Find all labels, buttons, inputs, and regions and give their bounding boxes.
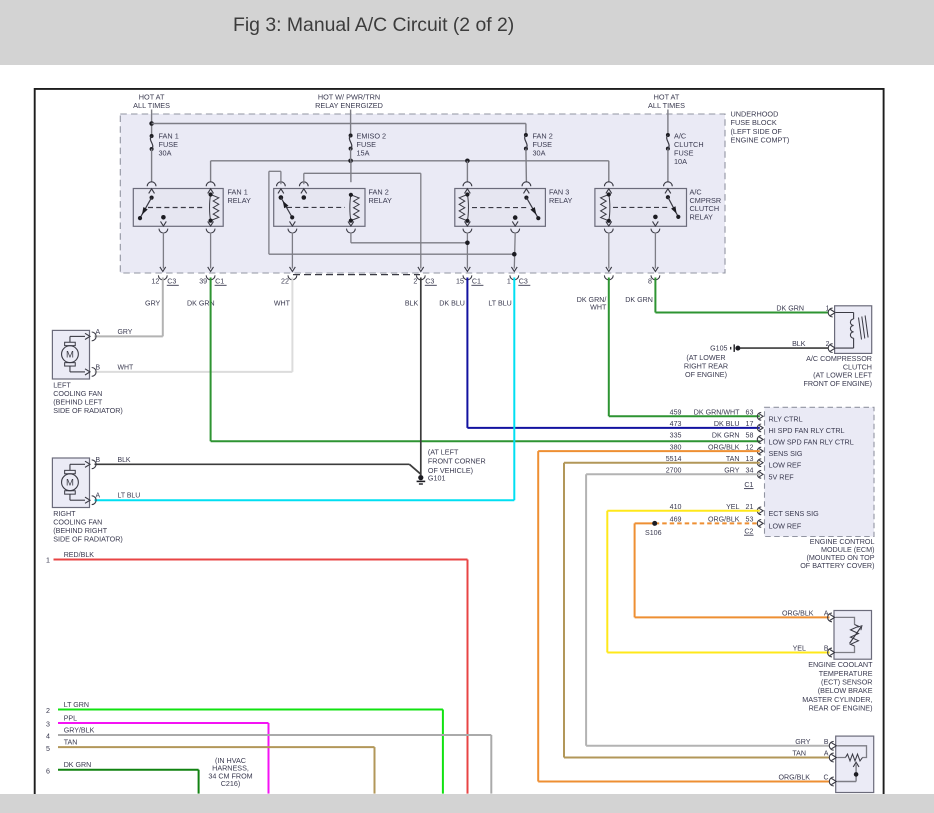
svg-text:YEL: YEL [793, 644, 806, 652]
svg-text:RED/BLK: RED/BLK [64, 551, 95, 559]
label: TAN at pressure sensor pin A [792, 750, 806, 758]
wire: FAN 1 switch output down [162, 233, 164, 269]
relay K2 pin 2 stub [299, 182, 308, 200]
diagram border frame [35, 89, 884, 794]
svg-text:A: A [96, 329, 101, 336]
svg-text:ENGINE COMPT): ENGINE COMPT) [731, 136, 790, 145]
svg-text:ORG/BLK: ORG/BLK [708, 443, 740, 451]
fuse block edge darker dash segment [293, 274, 420, 276]
relay K1 coil output pin [206, 221, 215, 233]
wire RED/BLK: HVAC pin 1 [54, 560, 468, 794]
pressure sensor resistor [837, 746, 866, 782]
label: 6 DK GRN [46, 761, 91, 775]
svg-text:B: B [96, 364, 101, 371]
relay K4 control dashed line [613, 206, 670, 208]
wire ORG/BLK: ECT sensor pin A to splice S106 [635, 523, 830, 617]
svg-text:473: 473 [670, 420, 682, 428]
ECM pin 12 SENS SIG [670, 443, 803, 458]
wire DK GRN: HVAC pin 6 [58, 770, 199, 794]
ECM pin 13 LOW REF [666, 455, 802, 470]
svg-text:DK GRN/WHT: DK GRN/WHT [694, 409, 740, 417]
wire DK GRN: connector 39 to ECM LOW SPD FAN RLY CTRL [211, 278, 760, 442]
svg-text:LT GRN: LT GRN [64, 701, 89, 709]
label: BLK [405, 299, 419, 307]
ECM pin 53 LOW REF [670, 516, 802, 531]
svg-text:WHT: WHT [274, 299, 291, 307]
svg-text:A: A [824, 610, 829, 617]
relay K1 FAN 1 RELAY box [133, 189, 223, 227]
svg-text:13: 13 [746, 455, 754, 463]
wire TAN: ECM LOW REF to pressure sensor pin A [564, 463, 830, 758]
svg-text:BLK: BLK [792, 340, 806, 348]
wire: FAN 2 pin1 to FAN 3 output node [269, 171, 514, 254]
label: ORG/BLK at pressure sensor pin C [778, 773, 810, 781]
wire: feed into A/C CLUTCH fuse [667, 110, 669, 136]
label: YEL at ECT pin B [793, 644, 806, 652]
svg-text:6: 6 [46, 767, 50, 775]
wire: FAN 1 coil output down [210, 233, 212, 269]
pressure sensor pin B [824, 739, 837, 750]
svg-text:C216): C216) [221, 779, 241, 788]
svg-text:469: 469 [670, 516, 682, 524]
relay K1 coil [209, 192, 219, 222]
svg-text:30A: 30A [533, 149, 546, 158]
relay K3 switch [524, 196, 540, 221]
svg-text:2: 2 [826, 341, 830, 348]
svg-text:DK GRN: DK GRN [712, 432, 740, 440]
svg-text:Fig 3: Manual A/C Circuit (2 o: Fig 3: Manual A/C Circuit (2 of 2) [233, 14, 514, 36]
wire: FAN 2 pin2 to BLK connector [304, 173, 421, 268]
wire BLK: right fan pin B to ground G101 [95, 464, 421, 474]
svg-text:1: 1 [46, 557, 50, 565]
label: ENGINE COOLANT TEMPERATURE (ECT) SENSOR [802, 660, 873, 713]
svg-text:17: 17 [746, 420, 754, 428]
svg-text:1: 1 [826, 305, 830, 312]
wire BLK: G105 to clutch pin 2 [740, 347, 828, 349]
relay K4 coil pin (top) [604, 182, 613, 194]
svg-text:(BELOW BRAKE: (BELOW BRAKE [818, 686, 873, 695]
wire LT GRN: HVAC pin 2 [58, 710, 443, 794]
label: 5 TAN [46, 739, 77, 753]
ECT sensor pin A [824, 610, 835, 621]
relay K1 output pin [159, 215, 168, 233]
svg-text:LOW REF: LOW REF [769, 461, 802, 470]
label: 1 RED/BLK [46, 551, 94, 565]
label: BLK at clutch pin 2 [792, 340, 806, 348]
svg-text:ENGINE COOLANT: ENGINE COOLANT [808, 660, 873, 669]
wire: FAN 2 coil output to FAN 3 coil node [351, 233, 468, 243]
connector pin 1 C3 at fuse block edge [507, 267, 530, 286]
label: HOT W/ PWR/TRN RELAY ENERGIZED [315, 93, 383, 111]
svg-text:G101: G101 [428, 474, 446, 483]
relay K4 A/C CMPRSR CLUTCH RELAY box [595, 189, 687, 227]
svg-text:3: 3 [46, 721, 50, 729]
component A/C PRESSURE SENSOR box [836, 736, 874, 792]
svg-text:M: M [66, 478, 74, 489]
relay K2 pin 1 (top) [277, 182, 286, 200]
motor M1 LEFT COOLING FAN [52, 330, 96, 379]
wire: bus HOT AT ALL TIMES to FAN 2 fuse [152, 124, 526, 136]
label: DK BLU [439, 299, 465, 307]
label: FAN 2 RELAY [369, 187, 393, 205]
wire GRY: ECM 5V REF to pressure sensor pin B [586, 474, 829, 746]
svg-text:LOW SPD FAN RLY CTRL: LOW SPD FAN RLY CTRL [769, 438, 854, 447]
wire: FAN 2 switch output down [291, 233, 293, 269]
svg-text:ALL TIMES: ALL TIMES [648, 101, 685, 110]
splice S106 [645, 521, 662, 537]
relay K4 switch [666, 195, 681, 219]
svg-text:B: B [96, 457, 101, 464]
wire DK BLU: connector 15 to ECM HI SPD FAN RLY CTRL [467, 278, 759, 428]
svg-text:ORG/BLK: ORG/BLK [782, 609, 814, 617]
wire GRY: connector 12 to left fan pin A [95, 278, 163, 337]
relay K1 switch [138, 196, 154, 221]
label: pin A LT BLU (right fan) [96, 493, 141, 500]
wire GRY/BLK: HVAC pin 4 [58, 735, 491, 794]
wire: FAN 3 coil output down [465, 233, 470, 269]
label: GRY [145, 299, 161, 307]
svg-text:B: B [824, 739, 829, 746]
wire ORG/BLK: ECM SENS SIG to pressure sensor pin C [538, 451, 829, 781]
relay K2 control dashed line [287, 206, 345, 208]
label: DK GRN/ WHT [577, 296, 607, 312]
relay K4 coil output pin [604, 221, 613, 233]
svg-text:TEMPERATURE: TEMPERATURE [819, 669, 873, 678]
label: pin B WHT (left fan) [96, 364, 134, 371]
svg-text:C1: C1 [744, 481, 753, 489]
svg-text:DK GRN: DK GRN [64, 761, 92, 769]
wire: A/C clutch fuse to relay switch [667, 149, 669, 183]
wire: A/C relay switch output down [654, 233, 656, 269]
wire: EMISO bus down to FAN 2 relay coil [350, 161, 352, 182]
svg-text:FUSE BLOCK: FUSE BLOCK [731, 118, 777, 127]
svg-text:BLK: BLK [118, 457, 131, 464]
label: FAN 1 FUSE 30A [159, 132, 179, 158]
label: A/C COMPRESSOR CLUTCH [803, 354, 872, 388]
ECT sensor pin B [824, 645, 835, 657]
fuse F1 FAN 1 30A [150, 134, 154, 151]
svg-text:ORG/BLK: ORG/BLK [708, 516, 740, 524]
svg-text:RLY CTRL: RLY CTRL [769, 414, 803, 423]
svg-text:ECT SENS SIG: ECT SENS SIG [769, 509, 820, 518]
svg-text:DK GRN: DK GRN [625, 296, 653, 304]
wire: FAN 2 fuse down to FAN 3 relay switch [525, 149, 528, 183]
ECT thermistor [836, 617, 862, 652]
svg-text:15: 15 [456, 278, 464, 286]
label: connector C2 (ECM) [744, 527, 754, 535]
svg-text:C1: C1 [472, 278, 481, 286]
svg-text:5: 5 [46, 745, 50, 753]
relay K4 switch pin (top) [664, 182, 673, 194]
A/C clutch coil [836, 313, 868, 349]
label: DK GRN [187, 299, 215, 307]
svg-text:LT BLU: LT BLU [488, 299, 511, 307]
svg-text:12: 12 [151, 278, 159, 286]
svg-text:ALL TIMES: ALL TIMES [133, 101, 170, 110]
svg-text:SIDE OF RADIATOR): SIDE OF RADIATOR) [53, 535, 123, 544]
component A/C COMPRESSOR CLUTCH box [835, 306, 872, 354]
wire YEL: ECM ECT SENS SIG to ECT sensor pin B [607, 511, 829, 653]
svg-text:C: C [824, 774, 829, 781]
relay K3 control dashed line [472, 207, 528, 209]
label: GRY at pressure sensor pin B [795, 738, 811, 746]
label: (IN HVAC HARNESS, 34 CM FROM C216) [208, 756, 252, 788]
relay K3 output pin [511, 215, 520, 233]
svg-text:GRY: GRY [795, 738, 811, 746]
svg-text:GRY/BLK: GRY/BLK [64, 727, 95, 735]
wire: A/C relay coil output down [608, 233, 610, 269]
relay K2 output pin [288, 221, 297, 233]
svg-text:ORG/BLK: ORG/BLK [778, 773, 810, 781]
connector pin 2 C3 at fuse block edge [413, 267, 436, 286]
svg-text:10A: 10A [674, 157, 687, 166]
label: FAN 2 FUSE 30A [533, 132, 553, 158]
motor M2 RIGHT COOLING FAN [52, 458, 96, 508]
svg-text:RELAY: RELAY [228, 196, 252, 205]
svg-text:(ECT) SENSOR: (ECT) SENSOR [821, 678, 873, 687]
svg-text:DK GRN: DK GRN [776, 304, 804, 312]
relay K4 coil [601, 192, 611, 223]
svg-text:C3: C3 [167, 278, 176, 286]
label: EMISO 2 FUSE 15A [357, 132, 387, 158]
svg-text:A: A [824, 751, 829, 758]
svg-text:LT BLU: LT BLU [118, 493, 141, 500]
svg-text:UNDERHOOD: UNDERHOOD [731, 110, 779, 119]
svg-text:FRONT CORNER: FRONT CORNER [428, 457, 486, 466]
relay K2 coil [349, 193, 359, 223]
pressure sensor pin A [824, 751, 837, 762]
svg-text:B: B [824, 645, 829, 652]
svg-text:HI SPD FAN RLY CTRL: HI SPD FAN RLY CTRL [769, 426, 845, 435]
wire BLK: connector 2 to ground G101 [420, 278, 422, 476]
svg-text:SIDE OF RADIATOR): SIDE OF RADIATOR) [53, 406, 123, 415]
connector pin 39 C1 at fuse block edge [199, 267, 226, 286]
svg-text:53: 53 [746, 516, 754, 524]
svg-text:GRY: GRY [118, 329, 133, 336]
label: DK GRN (clutch feed) [625, 296, 653, 304]
relay K3 coil pin (top) [463, 182, 472, 194]
svg-text:LOW REF: LOW REF [769, 521, 802, 530]
fuse F3 FAN 2 30A [524, 133, 528, 151]
svg-text:OF BATTERY COVER): OF BATTERY COVER) [800, 561, 874, 570]
fuse F2 EMISO 2 15A [349, 134, 353, 151]
pressure sensor pin C [824, 774, 837, 786]
label: connector C1 (ECM) [744, 481, 754, 489]
ground G101 [417, 475, 426, 484]
label: 2 LT GRN [46, 701, 89, 715]
svg-text:DK BLU: DK BLU [439, 299, 465, 307]
wire: EMISO 2 fuse to bus [350, 149, 352, 161]
svg-text:335: 335 [670, 432, 682, 440]
svg-text:WHT: WHT [118, 364, 134, 371]
label: WHT [274, 299, 291, 307]
svg-text:RELAY: RELAY [549, 196, 573, 205]
svg-text:PPL: PPL [64, 715, 77, 723]
svg-text:58: 58 [746, 432, 754, 440]
wire ORG/BLK (dashed): splice S106 to ECM LOW REF [655, 522, 760, 524]
component ECT SENSOR box [834, 611, 872, 660]
label: UNDERHOOD FUSE BLOCK [731, 110, 790, 145]
ECM pin 21 ECT SENS SIG [670, 503, 819, 518]
wire LT BLU: connector 1 to right fan pin A [95, 278, 515, 501]
relay K3 FAN 3 RELAY box [455, 189, 546, 227]
relay K3 coil [459, 192, 469, 223]
label: (AT LEFT FRONT CORNER OF VEHICLE) G101 [428, 447, 486, 482]
svg-text:8: 8 [648, 278, 652, 286]
svg-text:22: 22 [281, 278, 289, 286]
connector pin 15 C1 at fuse block edge [456, 267, 483, 286]
ECM pin 34 5V REF [666, 467, 795, 482]
A/C clutch pin 1 [826, 305, 836, 317]
svg-text:RELAY: RELAY [690, 212, 714, 221]
svg-text:S106: S106 [645, 529, 662, 537]
svg-text:459: 459 [670, 409, 682, 417]
label: FAN 3 RELAY [549, 187, 573, 205]
svg-text:DK BLU: DK BLU [714, 420, 740, 428]
svg-text:C1: C1 [215, 278, 224, 286]
relay K2 switch [279, 195, 295, 219]
svg-text:(AT LEFT: (AT LEFT [428, 447, 459, 456]
ECM pin 63 RLY CTRL [670, 409, 803, 424]
relay K1 coil pin (top) [206, 182, 215, 194]
label: A/C CMPRSR CLUTCH RELAY [690, 188, 722, 222]
ground G105 [731, 344, 741, 352]
relay K1 switch pin (top) [147, 182, 156, 194]
wire WHT: connector 22 to left fan pin B [95, 278, 293, 372]
svg-text:BLK: BLK [405, 299, 419, 307]
relay K4 output pin [651, 215, 660, 233]
connector pin 22 at fuse block edge [281, 267, 297, 286]
svg-text:SENS SIG: SENS SIG [769, 449, 803, 458]
svg-text:RELAY: RELAY [369, 196, 393, 205]
svg-text:5514: 5514 [666, 455, 682, 463]
connector exit (A/C relay coil wire) [604, 267, 613, 280]
connector pin 8 at fuse block edge [648, 267, 660, 286]
svg-text:2: 2 [46, 707, 50, 715]
svg-text:15A: 15A [357, 149, 370, 158]
relay K3 coil output pin [463, 221, 472, 233]
fuse F4 A/C CLUTCH 10A [666, 133, 670, 151]
svg-text:FRONT OF ENGINE): FRONT OF ENGINE) [803, 379, 872, 388]
label: FAN 1 RELAY [228, 187, 252, 205]
label: pin B BLK (right fan) [96, 457, 131, 464]
wire: feed into EMISO 2 fuse [350, 110, 352, 136]
wire: feed into FAN 1 fuse [149, 110, 154, 137]
svg-text:4: 4 [46, 733, 50, 741]
svg-text:C3: C3 [519, 278, 528, 286]
relay K2 FAN 2 RELAY box [274, 189, 365, 227]
wire: coil supply bus (EMISO 2 output) [211, 159, 609, 183]
svg-text:WHT: WHT [590, 304, 607, 312]
wire TAN: HVAC pin 5 [58, 747, 375, 794]
svg-text:TAN: TAN [726, 455, 740, 463]
label: G105 (AT LOWER RIGHT REAR OF ENGINE) [684, 345, 728, 379]
svg-text:TAN: TAN [792, 750, 806, 758]
relay K2 coil output pin [347, 221, 356, 233]
svg-text:39: 39 [199, 278, 207, 286]
svg-text:GRY: GRY [145, 299, 161, 307]
wire PPL: HVAC pin 3 [58, 723, 269, 794]
label: HOT AT ALL TIMES (right) [648, 93, 685, 111]
wire DK GRN/WHT: A/C relay coil to ECM RLY CTRL [609, 278, 760, 417]
svg-text:2: 2 [413, 278, 417, 286]
svg-text:A: A [96, 493, 101, 500]
svg-text:RELAY ENERGIZED: RELAY ENERGIZED [315, 101, 383, 110]
svg-text:12: 12 [746, 443, 754, 451]
svg-text:380: 380 [670, 443, 682, 451]
svg-text:1: 1 [507, 278, 511, 286]
wire: FAN 1 fuse to relay switch [151, 149, 153, 182]
svg-text:TAN: TAN [64, 739, 78, 747]
label: ENGINE CONTROL MODULE (ECM) [800, 537, 874, 570]
svg-text:5V REF: 5V REF [769, 472, 795, 481]
svg-text:(LEFT SIDE OF: (LEFT SIDE OF [731, 127, 783, 136]
label: ORG/BLK at ECT pin A [782, 609, 814, 617]
wire DK GRN: connector 8 to A/C compressor clutch pin 1 [655, 278, 828, 313]
label: 4 GRY/BLK [46, 727, 95, 741]
label: pin A GRY (left fan) [96, 329, 133, 336]
svg-text:M: M [66, 350, 74, 361]
A/C clutch pin 2 [826, 341, 836, 353]
label: 3 PPL [46, 715, 77, 729]
ECM pin 17 HI SPD FAN RLY CTRL [670, 420, 845, 435]
svg-text:MASTER CYLINDER,: MASTER CYLINDER, [802, 695, 872, 704]
relay K3 switch pin (top) [522, 182, 531, 194]
wire: bus down to FAN 3 relay coil [466, 161, 468, 182]
ECM pin 58 LOW SPD FAN RLY CTRL [670, 432, 854, 447]
label: A/C CLUTCH FUSE 10A [674, 132, 704, 166]
label: HOT AT ALL TIMES (left) [133, 93, 170, 111]
wire: FAN 3 switch output down [512, 233, 517, 269]
svg-text:63: 63 [746, 409, 754, 417]
label: DK GRN at clutch pin 1 [776, 304, 804, 312]
connector pin 12 C3 at fuse block edge [151, 267, 178, 286]
label: RIGHT COOLING FAN [53, 509, 123, 544]
svg-text:OF ENGINE): OF ENGINE) [685, 370, 727, 379]
label: LEFT COOLING FAN [53, 381, 123, 416]
underhood fuse block (dashed box) [120, 114, 725, 273]
svg-text:30A: 30A [159, 149, 172, 158]
svg-text:C2: C2 [744, 527, 753, 535]
module ECM (dashed box) [765, 407, 875, 536]
svg-text:C3: C3 [425, 278, 434, 286]
svg-text:REAR OF ENGINE): REAR OF ENGINE) [809, 704, 873, 713]
label: LT BLU [488, 299, 511, 307]
relay K1 control dashed line [148, 207, 205, 209]
svg-text:G105: G105 [710, 345, 727, 353]
